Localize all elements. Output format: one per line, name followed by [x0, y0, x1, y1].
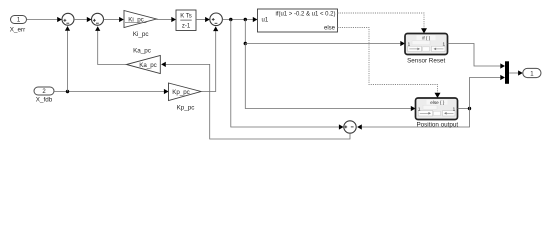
- wire X_fdb to Kp_pc with junction: [54, 89, 169, 94]
- wire Ka_pc to sum2 bottom: [95, 26, 126, 64]
- svg-text:Kp_pc: Kp_pc: [172, 89, 190, 96]
- svg-text:1: 1: [443, 42, 446, 47]
- wire integrator to sum3: [196, 17, 210, 22]
- inport 2 X_fdb: [34, 87, 54, 104]
- gain Kp_pc: [169, 83, 202, 112]
- wire Kp_pc to sum3 bottom: [201, 26, 218, 91]
- svg-text:Ka_pc: Ka_pc: [133, 48, 151, 55]
- svg-text:if(u1 > -0.2 & u1 < 0.2): if(u1 > -0.2 & u1 < 0.2): [275, 12, 335, 18]
- svg-text:else: else: [324, 26, 336, 32]
- svg-text:z-1: z-1: [182, 24, 191, 30]
- svg-text:Sensor Reset: Sensor Reset: [407, 58, 445, 65]
- svg-text:K Ts: K Ts: [180, 14, 192, 20]
- dashed action wire else to Position output: [338, 28, 441, 99]
- svg-text:u1: u1: [262, 18, 269, 24]
- wire Ki_pc to integrator: [157, 17, 177, 22]
- svg-text:1: 1: [418, 107, 421, 112]
- gain Ka_pc (flipped): [127, 48, 161, 74]
- wire anti-windup sum output to Ka_pc: [161, 62, 350, 139]
- inport 1 X_err: [10, 16, 27, 34]
- svg-text:X_fdb: X_fdb: [36, 97, 53, 104]
- svg-text:else { }: else { }: [430, 100, 445, 105]
- sum S2: [92, 13, 104, 25]
- svg-text:Kp_pc: Kp_pc: [177, 105, 195, 112]
- outport 1: [523, 68, 541, 77]
- svg-text:Ka_pc: Ka_pc: [139, 62, 157, 69]
- wire junction up to Merge in2: [470, 75, 506, 109]
- If block: [258, 9, 338, 32]
- dashed action wire if() to Sensor Reset: [338, 13, 428, 34]
- wire Sensor Reset to Merge in1: [448, 44, 506, 69]
- svg-text:1: 1: [453, 107, 456, 112]
- gain Ki_pc: [124, 11, 157, 39]
- sum S3: [210, 13, 223, 26]
- svg-text:Ki_pc: Ki_pc: [133, 31, 149, 38]
- sum S4 anti-windup: [344, 121, 356, 133]
- wire sum1 to sum2: [74, 17, 92, 22]
- wire junction down to anti-windup sum right input: [357, 109, 469, 130]
- sum S1: [62, 13, 74, 25]
- wire branch to anti-windup sum (left input): [231, 20, 344, 130]
- subsystem Sensor Reset: [405, 34, 448, 65]
- svg-text:if ( ): if ( ): [422, 35, 430, 40]
- wire X_fdb junction up to sum1 bottom: [65, 26, 70, 92]
- Merge block: [505, 61, 523, 84]
- wire Position output to junction: [458, 107, 472, 110]
- wire sum3 to If block with junctions: [222, 17, 257, 22]
- wire sum2 to Ki_pc: [104, 17, 124, 22]
- wire X_err to sum1: [27, 17, 62, 22]
- svg-text:X_err: X_err: [10, 27, 25, 34]
- wire branch to Sensor Reset input: [244, 20, 405, 47]
- discrete integrator K Ts/(z-1): [176, 10, 196, 31]
- svg-text:1: 1: [408, 42, 411, 47]
- wire branch to Position output input: [245, 44, 415, 112]
- subsystem Position output: [416, 98, 459, 128]
